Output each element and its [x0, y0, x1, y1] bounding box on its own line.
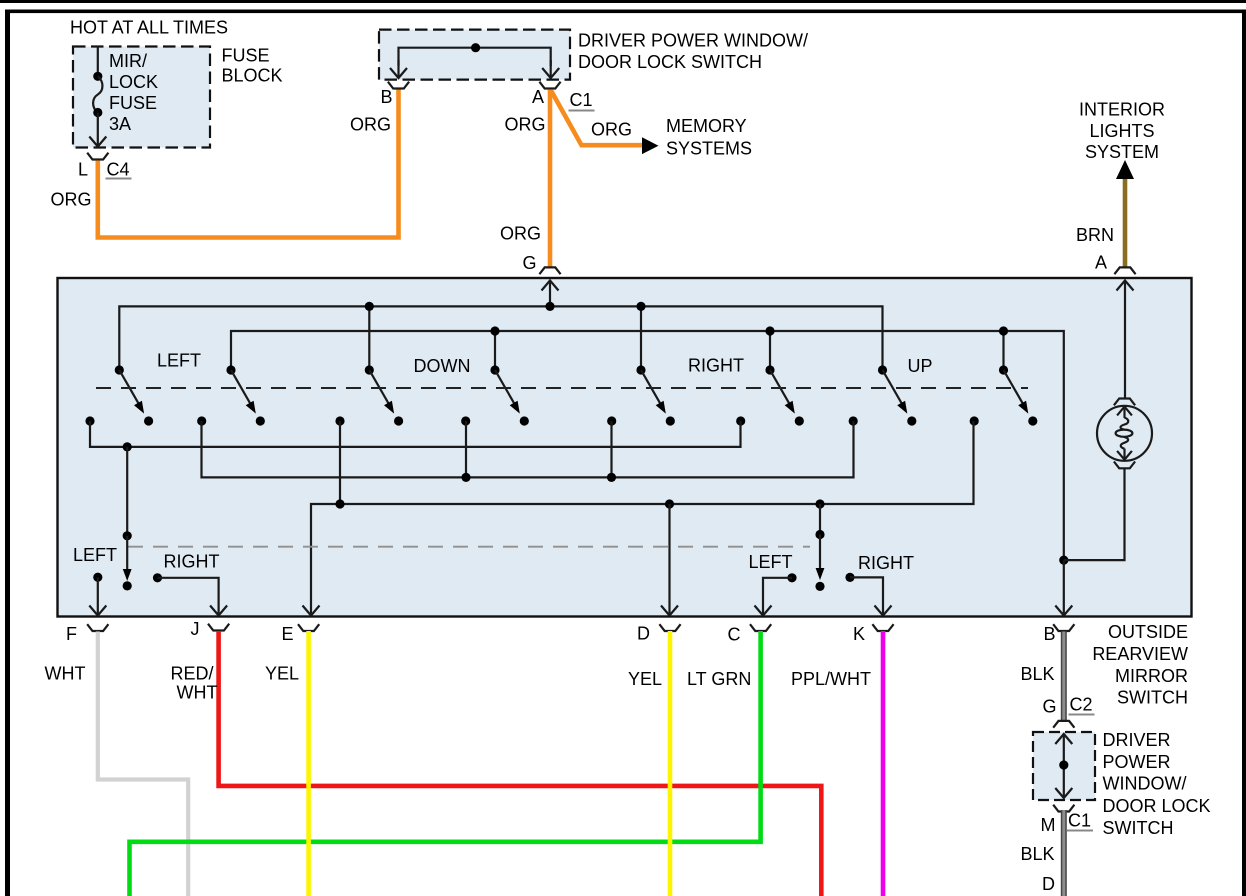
node DOWN2 contact junction — [465, 421, 467, 477]
svg-text:BLK: BLK — [1021, 664, 1055, 684]
wire YEL from D — [668, 631, 673, 896]
wire ORG branch to memory systems — [551, 91, 642, 146]
wire into fuse — [97, 46, 99, 74]
svg-text:ORG: ORG — [505, 115, 546, 135]
wire PPL/WHT from K — [881, 631, 886, 896]
svg-text:LEFT: LEFT — [73, 545, 117, 565]
node selector1 tap — [123, 442, 132, 451]
switch UP pole 2 — [970, 365, 1038, 425]
svg-text:YEL: YEL — [265, 664, 299, 684]
switch RIGHT pole 1 — [607, 365, 675, 425]
switch DOWN pole 2 — [461, 365, 529, 425]
switch RIGHT pole 2 — [736, 365, 804, 425]
arrow to memory systems — [642, 137, 659, 154]
node UP2 tap — [1002, 331, 1004, 370]
mirror selector 1 pivot — [123, 531, 132, 540]
mirror selector 1 feed — [126, 447, 128, 536]
internal arrow to pin A — [550, 60, 552, 78]
svg-text:INTERIOR: INTERIOR — [1079, 100, 1165, 120]
svg-text:BLOCK: BLOCK — [222, 66, 283, 86]
top edge black strip — [0, 0, 1246, 3]
svg-text:ORG: ORG — [350, 115, 391, 135]
svg-text:LOCK: LOCK — [109, 72, 158, 92]
selector 2 LEFT contact to pin C — [787, 573, 796, 582]
svg-text:DRIVER: DRIVER — [1103, 730, 1171, 750]
mirror selector 2 feed — [819, 504, 821, 535]
svg-text:RIGHT: RIGHT — [688, 356, 744, 376]
node RIGHT1 tap — [640, 306, 642, 370]
svg-text:BRN: BRN — [1076, 225, 1114, 245]
svg-text:C2: C2 — [1070, 695, 1093, 715]
internal wire with junction — [399, 48, 551, 66]
wire ORG from A to G — [548, 90, 553, 268]
driver power window / door lock switch dashed box (top) — [379, 30, 570, 80]
internal arrow to pin B — [397, 60, 399, 78]
node RIGHT2 tap — [769, 331, 771, 370]
wire YEL from E — [306, 631, 311, 896]
node G junction — [545, 302, 554, 311]
switch DOWN pole 1 — [335, 365, 403, 425]
svg-text:WHT: WHT — [177, 683, 218, 703]
svg-text:POWER: POWER — [1103, 752, 1171, 772]
svg-text:F: F — [66, 624, 77, 644]
svg-text:G: G — [523, 253, 537, 273]
svg-text:DOWN: DOWN — [414, 356, 471, 376]
bus C with drop to pin E — [311, 421, 974, 614]
switch UP pole 1 — [849, 365, 917, 425]
fuse block dashed box — [73, 47, 210, 148]
lamp bottom wire to junction — [1064, 468, 1125, 560]
svg-text:D: D — [637, 624, 650, 644]
wire BLK to D — [1061, 810, 1067, 896]
frame border: top bar — [5, 10, 1246, 14]
svg-text:MIRROR: MIRROR — [1115, 666, 1188, 686]
switch LEFT pole 2 — [197, 365, 265, 425]
svg-text:3A: 3A — [109, 114, 131, 134]
selector 1 RIGHT contact to pin J — [153, 573, 162, 582]
bus 1 (upper) — [119, 306, 882, 370]
wire RED/WHT from J — [219, 631, 822, 896]
svg-text:LT GRN: LT GRN — [687, 669, 751, 689]
svg-text:J: J — [191, 619, 200, 639]
fuse MIR/LOCK FUSE 3A — [93, 72, 102, 81]
node RIGHT1 contact junction — [610, 421, 612, 477]
svg-text:D: D — [1042, 874, 1055, 894]
frame border: left bar — [5, 10, 10, 896]
svg-text:REARVIEW: REARVIEW — [1092, 644, 1188, 664]
wire WHT from F — [98, 632, 188, 896]
switch LEFT pole 1 — [85, 365, 153, 425]
svg-text:DOOR LOCK: DOOR LOCK — [1103, 796, 1211, 816]
svg-text:MIR/: MIR/ — [109, 51, 147, 71]
lamp L1 (mirror illumination) — [1114, 399, 1135, 406]
connector pin B — [388, 82, 409, 89]
svg-text:ORG: ORG — [591, 120, 632, 140]
node DOWN1 tap — [368, 306, 370, 370]
connector pin E — [298, 624, 319, 631]
mirror selector 2 arm — [819, 535, 821, 570]
node DOWN2 tap — [494, 331, 496, 370]
svg-text:SWITCH: SWITCH — [1103, 818, 1174, 838]
wire BLK from B — [1061, 632, 1067, 721]
bus A — [90, 421, 741, 447]
svg-text:LEFT: LEFT — [157, 351, 201, 371]
svg-text:RED/: RED/ — [171, 664, 214, 684]
svg-text:B: B — [381, 87, 393, 107]
arrow to interior lights system — [1116, 160, 1134, 179]
svg-text:C1: C1 — [1068, 811, 1091, 831]
node lamp junction — [1059, 556, 1068, 565]
bus B — [202, 421, 854, 477]
svg-text:RIGHT: RIGHT — [858, 553, 914, 573]
entry arrow to A (lamp feed) — [1124, 281, 1126, 398]
node DOWN1 contact junction — [339, 421, 341, 504]
driver power window / door lock switch dashed box (bottom) — [1033, 732, 1095, 800]
connector pin L C4 — [87, 153, 108, 160]
connector pin M C1 — [1053, 805, 1074, 812]
connector pin G C2 — [1053, 721, 1074, 728]
svg-text:K: K — [853, 624, 865, 644]
frame border: right bar — [1242, 10, 1246, 896]
svg-text:PPL/WHT: PPL/WHT — [791, 669, 871, 689]
svg-text:HOT AT ALL TIMES: HOT AT ALL TIMES — [70, 18, 228, 38]
connector pin F — [87, 624, 108, 631]
svg-text:SWITCH: SWITCH — [1117, 688, 1188, 708]
connector pin C — [750, 624, 771, 631]
svg-text:SYSTEMS: SYSTEMS — [666, 139, 752, 159]
svg-text:E: E — [282, 624, 294, 644]
svg-text:WINDOW/: WINDOW/ — [1103, 774, 1187, 794]
wire ORG from L down right and up to B — [98, 90, 399, 238]
svg-text:M: M — [1041, 815, 1056, 835]
mirror selector 1 arm — [126, 536, 128, 570]
connector pin K — [872, 624, 893, 631]
svg-text:ORG: ORG — [500, 224, 541, 244]
svg-text:LIGHTS: LIGHTS — [1090, 121, 1155, 141]
svg-text:FUSE: FUSE — [222, 46, 270, 66]
selector 2 RIGHT contact to pin K — [845, 573, 854, 582]
svg-text:A: A — [1095, 253, 1107, 273]
svg-text:C1: C1 — [570, 90, 593, 110]
wire BRN — [1123, 179, 1128, 267]
svg-text:ORG: ORG — [51, 190, 92, 210]
dashed actuation line (switch row) — [96, 387, 1028, 389]
svg-text:OUTSIDE: OUTSIDE — [1108, 622, 1188, 642]
connector pin D — [659, 624, 680, 631]
svg-text:SYSTEM: SYSTEM — [1085, 142, 1159, 162]
mirror selector 1 centre contact — [123, 581, 132, 590]
svg-text:C: C — [728, 625, 741, 645]
connector pin A C1 — [539, 82, 560, 89]
svg-text:RIGHT: RIGHT — [164, 552, 220, 572]
svg-text:WHT: WHT — [45, 664, 86, 684]
svg-text:LEFT: LEFT — [749, 552, 793, 572]
wire LT GRN from C — [130, 631, 761, 896]
svg-text:DOOR LOCK SWITCH: DOOR LOCK SWITCH — [578, 52, 762, 72]
svg-text:MEMORY: MEMORY — [666, 116, 747, 136]
pin D drop — [668, 504, 670, 614]
svg-text:BLK: BLK — [1021, 844, 1055, 864]
node pin D tap — [665, 499, 674, 508]
svg-text:L: L — [78, 160, 88, 180]
connector pin A (box top right) — [1114, 267, 1135, 274]
node selector2 tap — [815, 499, 824, 508]
dashed actuation line (selector row) — [128, 546, 810, 548]
drop to pin B — [1063, 560, 1065, 613]
svg-text:A: A — [532, 87, 544, 107]
entry arrow from G — [549, 281, 551, 306]
connector pin G (box top) — [539, 267, 560, 274]
svg-text:UP: UP — [908, 356, 933, 376]
internal wire with arrows both ends — [1063, 734, 1065, 798]
mirror selector 2 centre contact — [815, 582, 824, 591]
fuse output arrow — [97, 113, 99, 147]
connector pin J — [208, 624, 229, 631]
svg-text:YEL: YEL — [628, 669, 662, 689]
selector 1 LEFT contact to pin F — [93, 573, 102, 582]
mirror selector 2 pivot — [815, 530, 824, 539]
svg-text:G: G — [1043, 697, 1057, 717]
svg-text:B: B — [1044, 624, 1056, 644]
connector pin B (mirror switch) — [1053, 624, 1074, 631]
bus 2 (lower) with drop to pin B — [231, 331, 1064, 558]
svg-text:DRIVER POWER WINDOW/: DRIVER POWER WINDOW/ — [578, 31, 808, 51]
svg-text:C4: C4 — [107, 160, 130, 180]
svg-text:FUSE: FUSE — [109, 93, 157, 113]
